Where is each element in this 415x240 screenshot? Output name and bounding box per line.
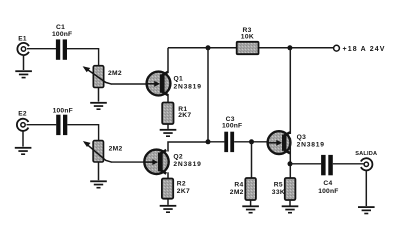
input connector E2 (17, 119, 29, 131)
resistor R3 (237, 42, 259, 54)
ground under SALIDA (358, 206, 375, 214)
ground under E1 (15, 70, 32, 78)
wire Q3 source to R5 (289, 138, 291, 178)
node junction E (output tap) (288, 161, 293, 166)
transistor Q2 2N3819 (144, 150, 168, 174)
resistor R1 (162, 103, 173, 125)
wire C1 to trimmer P1 (67, 49, 99, 66)
ground under R1 (160, 129, 177, 137)
wire C4 to SALIDA (333, 163, 364, 165)
ground under R5 (282, 205, 299, 213)
capacitor C2 (56, 115, 67, 135)
wire P1 wiper to Q1 gate (112, 83, 150, 85)
wire P2 wiper to Q2 gate (112, 161, 148, 163)
svg-text:Q3: Q3 (297, 134, 307, 141)
svg-text:Q2: Q2 (173, 154, 183, 161)
svg-text:R2: R2 (177, 180, 186, 187)
wire R1 to ground (167, 124, 169, 129)
trimmer potentiometer P2 2M2 (83, 141, 112, 163)
transistor Q1 2N3819 (147, 72, 171, 96)
capacitor C3 (224, 132, 234, 152)
ground under P1 (90, 102, 107, 110)
resistor R4 (245, 178, 256, 200)
wire E2 to ground (22, 131, 24, 147)
capacitor C4 (321, 155, 333, 175)
ground under P2 (90, 180, 107, 188)
wire E1 to ground (23, 55, 25, 70)
resistor R2 (162, 179, 173, 199)
svg-text:C4: C4 (323, 180, 332, 187)
wire Q3 drain to node B (289, 48, 291, 134)
svg-text:33K: 33K (272, 189, 285, 196)
input connector E1 (17, 43, 29, 55)
top supply rail wire (168, 47, 334, 49)
svg-text:SALIDA: SALIDA (355, 151, 377, 157)
svg-text:2N3819: 2N3819 (174, 84, 202, 91)
wire P2 to ground (98, 162, 100, 180)
wire node A vertical (rail down to C3) (207, 48, 209, 142)
svg-text:100nF: 100nF (53, 107, 73, 114)
ground under E2 (15, 147, 32, 155)
node junction B (rail to Q3 drain) (287, 45, 292, 50)
wire node E to C4 (290, 163, 321, 165)
wire R5 to ground (289, 200, 291, 206)
svg-text:2M2: 2M2 (108, 70, 122, 77)
trimmer potentiometer P1 2M2 (83, 66, 112, 88)
wire SALIDA to ground (365, 170, 367, 206)
wire E2 to C2 (27, 124, 57, 126)
wire Q1 source to R1 (167, 94, 169, 103)
svg-text:R4: R4 (234, 182, 243, 189)
svg-text:2N3819: 2N3819 (173, 161, 201, 168)
svg-text:Q1: Q1 (174, 76, 184, 83)
svg-text:2K7: 2K7 (177, 188, 190, 195)
ground under R4 (242, 205, 259, 213)
wire C3 to Q3 gate (234, 141, 269, 143)
svg-text:2N3819: 2N3819 (297, 141, 325, 148)
output connector SALIDA (361, 158, 373, 170)
transistor Q3 2N3819 (268, 131, 291, 154)
wire node C to C3 (208, 141, 224, 143)
svg-text:100nF: 100nF (318, 188, 338, 195)
node junction A (rail to mixing node) (206, 45, 211, 50)
svg-text:2K7: 2K7 (178, 112, 191, 119)
wire node D to R4 (251, 142, 253, 178)
capacitor C1 (56, 39, 67, 59)
supply terminal +18 a 24V (334, 45, 340, 51)
svg-text:100nF: 100nF (222, 122, 242, 129)
wire R4 to ground (250, 200, 252, 206)
svg-text:R5: R5 (274, 182, 283, 189)
svg-text:100nF: 100nF (52, 31, 72, 38)
node junction C (mixing node at C3 left) (206, 139, 211, 144)
svg-text:2M2: 2M2 (109, 146, 123, 153)
wire E1 to C1 (27, 48, 56, 50)
svg-text:2M2: 2M2 (230, 189, 244, 196)
wire Q2 source to R2 (167, 172, 169, 178)
svg-text:E1: E1 (18, 35, 27, 42)
ground under R2 (160, 205, 177, 213)
svg-text:E2: E2 (18, 111, 27, 118)
resistor R5 (285, 178, 296, 200)
wire Q2 drain to node A (168, 142, 208, 152)
svg-text:10K: 10K (241, 34, 254, 41)
svg-text:+18 A 24V: +18 A 24V (343, 46, 386, 53)
node junction D (R4 tap) (249, 139, 254, 144)
wire P1 to ground (98, 88, 100, 102)
wire Q1 drain to top rail (167, 48, 169, 73)
wire C2 to trimmer P2 (67, 125, 98, 141)
wire R2 to ground (167, 199, 169, 205)
